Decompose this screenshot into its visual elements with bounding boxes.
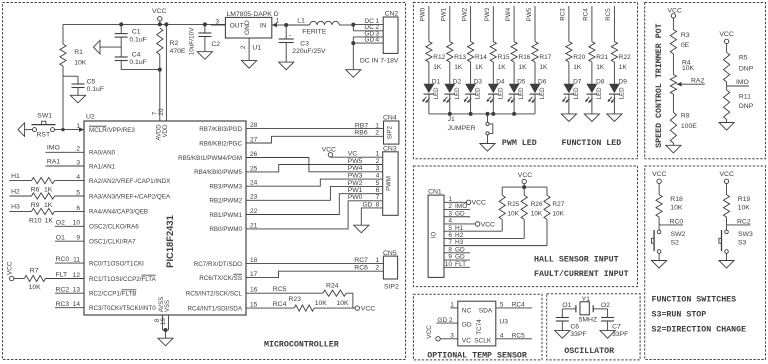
svg-text:PW3: PW3 bbox=[484, 7, 491, 21]
CN1 pin 10 FLT bbox=[444, 261, 470, 268]
CN1 pin 8 GD bbox=[444, 246, 470, 253]
section box MICROCONTROLLER bbox=[3, 3, 406, 360]
U2 pin 16 RC5/INT2/SCK/SCL bbox=[186, 287, 258, 298]
section box SPEED CONTROL TRIMMER POT bbox=[645, 3, 766, 159]
label FUNCTION LED bbox=[562, 139, 622, 148]
svg-text:RC7: RC7 bbox=[354, 257, 368, 264]
svg-text:OPTIONAL TEMP SENSOR: OPTIONAL TEMP SENSOR bbox=[427, 352, 527, 361]
svg-text:3: 3 bbox=[376, 165, 380, 172]
U2 pin 8 AVSS lead bbox=[154, 297, 165, 330]
net FLT label bbox=[56, 272, 68, 279]
label S2=DIRECTION CHANGE bbox=[652, 326, 747, 335]
svg-text:GD 2: GD 2 bbox=[437, 317, 453, 324]
label SPEED CONTROL TRIMMER POT bbox=[655, 23, 664, 147]
svg-text:1K: 1K bbox=[45, 217, 54, 224]
ground flag at C1/C4 midpoint bbox=[93, 40, 121, 54]
CN2 pin 4 GD bbox=[353, 37, 383, 44]
wire RST to U2 pin 1 bbox=[55, 129, 85, 131]
resistor R2 470E bbox=[157, 28, 186, 70]
svg-text:4: 4 bbox=[500, 333, 504, 340]
svg-text:1K: 1K bbox=[498, 64, 507, 71]
svg-text:VCC: VCC bbox=[152, 8, 166, 15]
net RC2 to pin 13 bbox=[55, 286, 84, 293]
svg-text:RC2: RC2 bbox=[737, 218, 751, 225]
svg-text:1K: 1K bbox=[475, 64, 484, 71]
svg-text:H1: H1 bbox=[455, 225, 464, 232]
resistor R13 1K bbox=[447, 42, 467, 72]
svg-text:PW4: PW4 bbox=[505, 7, 512, 21]
resistor R1 10K bbox=[60, 24, 87, 129]
svg-text:FUNCTION LED: FUNCTION LED bbox=[562, 139, 622, 148]
resistor R15 1K bbox=[490, 42, 510, 72]
junction C2 top bbox=[203, 22, 207, 26]
svg-text:5: 5 bbox=[376, 180, 380, 187]
svg-text:R14: R14 bbox=[475, 54, 487, 61]
R4 wiper RA2 bbox=[677, 77, 705, 86]
svg-text:10K: 10K bbox=[531, 211, 543, 218]
U3 pin 1 NC bbox=[450, 302, 458, 309]
svg-text:GD: GD bbox=[455, 246, 465, 253]
svg-text:JUMPER: JUMPER bbox=[448, 125, 476, 132]
svg-text:10K: 10K bbox=[552, 211, 564, 218]
svg-text:H1: H1 bbox=[11, 173, 20, 180]
svg-text:10K: 10K bbox=[74, 60, 87, 67]
U2 pin 14 RC3/T0CKI/T5CKI/INT0 bbox=[73, 301, 157, 312]
net RC2 stub bbox=[727, 217, 751, 230]
svg-text:14: 14 bbox=[73, 301, 81, 308]
svg-text:VCC: VCC bbox=[720, 171, 734, 178]
svg-text:R17: R17 bbox=[539, 54, 551, 61]
node VCC at CN3 bbox=[322, 146, 336, 157]
svg-text:15: 15 bbox=[250, 302, 258, 309]
svg-text:RC2: RC2 bbox=[56, 286, 70, 293]
label HALL SENSOR INPUT bbox=[534, 256, 619, 265]
svg-text:3: 3 bbox=[215, 18, 219, 25]
svg-text:RA3/AN3/VREF+/CAP2/QEA: RA3/AN3/VREF+/CAP2/QEA bbox=[89, 193, 171, 200]
svg-text:20: 20 bbox=[158, 108, 165, 115]
net H3 wire bbox=[9, 204, 31, 212]
svg-text:RC0: RC0 bbox=[670, 218, 684, 225]
svg-text:2: 2 bbox=[375, 264, 379, 271]
svg-text:PW4: PW4 bbox=[348, 165, 363, 172]
label OSCILLATOR bbox=[564, 347, 614, 356]
svg-text:LED: LED bbox=[618, 87, 625, 100]
svg-text:LM7805-DAPK D: LM7805-DAPK D bbox=[227, 11, 279, 18]
capacitor C6 33PF bbox=[556, 318, 587, 338]
label DC IN 7-18V bbox=[360, 58, 399, 65]
U2 pin 23 RB2/PWM2 bbox=[209, 194, 257, 205]
ground under C2 bbox=[197, 52, 212, 60]
svg-text:IO: IO bbox=[431, 232, 437, 239]
svg-text:5: 5 bbox=[76, 189, 80, 196]
svg-text:8: 8 bbox=[448, 246, 452, 253]
svg-text:10K: 10K bbox=[670, 205, 683, 212]
svg-text:C4: C4 bbox=[132, 51, 141, 58]
svg-text:RB2/PWM2: RB2/PWM2 bbox=[209, 198, 242, 205]
U2 pin 21 RB0/PWM0 bbox=[209, 222, 257, 233]
ground flag left of SW1 bbox=[18, 123, 33, 137]
ground under C7 bbox=[600, 331, 615, 339]
CN1 pin 9 GD bbox=[444, 254, 470, 261]
svg-text:10uF/10V: 10uF/10V bbox=[188, 27, 195, 55]
CN1 pin 2 IMO bbox=[444, 203, 470, 210]
LED D3 bbox=[464, 62, 482, 114]
resistor R12 1K bbox=[426, 42, 446, 72]
svg-text:26: 26 bbox=[250, 151, 258, 158]
svg-text:220uF/25V: 220uF/25V bbox=[292, 48, 326, 55]
net H1 wire bbox=[9, 173, 31, 181]
svg-text:RA0/AN0: RA0/AN0 bbox=[89, 150, 116, 157]
U2 pin 11 RC0/T1OSO/T1CKI bbox=[73, 257, 144, 268]
svg-text:VDD: VDD bbox=[163, 124, 169, 137]
connector CN4 SIP2 bbox=[383, 114, 399, 144]
svg-text:GD: GD bbox=[363, 201, 373, 208]
svg-text:C3: C3 bbox=[300, 40, 309, 47]
svg-text:R15: R15 bbox=[498, 54, 510, 61]
U2 pin 10 OSC2/CLKO/RA6 bbox=[73, 220, 140, 231]
ground under C6 bbox=[555, 331, 570, 339]
svg-text:RC5: RC5 bbox=[512, 333, 525, 340]
svg-text:R8: R8 bbox=[681, 112, 690, 119]
connector CN1 IO bbox=[428, 188, 444, 277]
U1 pin 3 OUT wire bbox=[211, 18, 225, 25]
resistor R24 10K bbox=[246, 283, 353, 309]
svg-text:R12: R12 bbox=[433, 54, 445, 61]
svg-text:SCLK: SCLK bbox=[474, 337, 492, 344]
svg-text:21: 21 bbox=[250, 222, 258, 229]
svg-text:HALL SENSOR INPUT: HALL SENSOR INPUT bbox=[534, 256, 619, 265]
CN1 pin 5 H1 bbox=[444, 225, 502, 232]
junction LED bus bbox=[491, 112, 495, 116]
wire RC7 pin18 to CN5-1 bbox=[246, 257, 383, 264]
svg-text:OSCILLATOR: OSCILLATOR bbox=[564, 347, 614, 356]
U2 pin 27 RB6/KBI2/PGC bbox=[199, 136, 257, 147]
U2 pin 26 RB5/KBI1/PWM4/PGM bbox=[178, 151, 258, 162]
svg-text:24: 24 bbox=[250, 180, 258, 187]
svg-text:8: 8 bbox=[376, 201, 380, 208]
capacitor C2 10uF/10V bbox=[188, 24, 220, 55]
svg-text:PW0: PW0 bbox=[348, 194, 363, 201]
svg-text:PWM: PWM bbox=[387, 176, 393, 191]
capacitor C7 33PF bbox=[601, 318, 628, 338]
svg-text:2: 2 bbox=[76, 146, 80, 153]
svg-text:RA4/AN4/CAP3/QEB: RA4/AN4/CAP3/QEB bbox=[89, 209, 148, 216]
svg-text:1: 1 bbox=[448, 196, 452, 203]
svg-text:O1: O1 bbox=[56, 234, 65, 241]
ground under D9 bbox=[607, 114, 622, 122]
svg-text:SW3: SW3 bbox=[738, 231, 753, 238]
U2 pin 1 input arrow bbox=[79, 127, 84, 132]
svg-text:R9: R9 bbox=[31, 202, 40, 209]
svg-text:C1: C1 bbox=[132, 29, 141, 36]
svg-text:25: 25 bbox=[250, 165, 258, 172]
capacitor C5 0.1uF bbox=[63, 76, 104, 95]
svg-text:R21: R21 bbox=[596, 54, 608, 61]
connector CN3 PWM bbox=[383, 145, 398, 215]
svg-text:R27: R27 bbox=[552, 201, 564, 208]
wire VC to CN3-1 bbox=[330, 151, 382, 158]
resistor R3 0E bbox=[670, 30, 690, 54]
U3 pin 2 GD bbox=[436, 317, 457, 324]
svg-text:17: 17 bbox=[250, 271, 258, 278]
net RC0 to pin 11 bbox=[55, 256, 84, 263]
net PW3 label bbox=[484, 6, 493, 42]
resistor R26 10K bbox=[521, 187, 543, 238]
ground under U2 bbox=[158, 338, 173, 346]
svg-text:RC5/INT2/SCK/SCL: RC5/INT2/SCK/SCL bbox=[186, 291, 243, 298]
svg-text:RC6: RC6 bbox=[354, 264, 368, 271]
svg-text:470E: 470E bbox=[170, 48, 186, 55]
U2 pin 22 RB1/PWM1 bbox=[209, 208, 257, 219]
svg-text:RC4: RC4 bbox=[583, 8, 590, 21]
svg-text:LED: LED bbox=[596, 87, 603, 100]
resistor R11 DNP bbox=[723, 90, 753, 119]
svg-text:0.1uF: 0.1uF bbox=[129, 59, 146, 66]
junction R2 top bbox=[158, 22, 162, 26]
svg-text:CN3: CN3 bbox=[383, 145, 397, 152]
resistor R27 10K bbox=[544, 187, 565, 246]
ground under CN3 bbox=[354, 225, 369, 233]
svg-text:6: 6 bbox=[76, 205, 80, 212]
ground under D8 bbox=[584, 114, 599, 122]
U2 pin 17 RC6/TX/CK/SS bbox=[199, 271, 257, 282]
ground under U1 bbox=[242, 61, 257, 69]
svg-text:23: 23 bbox=[250, 194, 258, 201]
svg-text:LED: LED bbox=[497, 87, 504, 100]
svg-text:RC1/T1OSI/CCP2/FLTA: RC1/T1OSI/CCP2/FLTA bbox=[89, 276, 157, 283]
resistor R21 1K bbox=[589, 42, 609, 72]
CN1 pin 6 H2 bbox=[444, 232, 524, 239]
svg-text:RC4: RC4 bbox=[512, 302, 525, 309]
svg-text:SW1: SW1 bbox=[37, 113, 52, 120]
net O2 wire bbox=[593, 302, 610, 318]
svg-text:1K: 1K bbox=[596, 64, 605, 71]
svg-text:10K: 10K bbox=[315, 300, 328, 307]
svg-text:RC2/CCP1/FLTB: RC2/CCP1/FLTB bbox=[89, 291, 136, 298]
svg-text:VCC: VCC bbox=[518, 172, 532, 179]
svg-text:2: 2 bbox=[375, 129, 379, 136]
svg-text:RC4: RC4 bbox=[273, 301, 287, 308]
svg-text:RB1/PWM1: RB1/PWM1 bbox=[209, 212, 242, 219]
svg-text:H3: H3 bbox=[11, 204, 20, 211]
net RC3 to pin 14 bbox=[55, 301, 84, 308]
svg-text:CN2: CN2 bbox=[385, 10, 399, 17]
svg-text:TC74: TC74 bbox=[476, 319, 483, 335]
svg-text:GND: GND bbox=[244, 20, 251, 35]
junction C1 top bbox=[119, 22, 123, 26]
svg-text:DNP: DNP bbox=[739, 103, 754, 110]
U1 pin 2 GND lead bbox=[240, 38, 261, 61]
U2 pin 4 RA2/AN2/VREF-/CAP1/INDX bbox=[76, 174, 171, 185]
ground under R8 bbox=[666, 145, 681, 153]
node VCC at R7 bbox=[7, 261, 25, 281]
svg-text:RC5: RC5 bbox=[273, 286, 287, 293]
node VCC at R23/R24 bbox=[355, 306, 375, 313]
net RC5 label pin16 bbox=[273, 286, 287, 293]
svg-text:J1: J1 bbox=[448, 116, 455, 123]
svg-text:R6: R6 bbox=[31, 187, 40, 194]
svg-text:D7: D7 bbox=[573, 78, 582, 85]
svg-text:VC: VC bbox=[348, 151, 358, 158]
svg-text:1: 1 bbox=[375, 122, 379, 129]
svg-text:VCC: VCC bbox=[668, 7, 682, 14]
svg-text:LED: LED bbox=[454, 87, 461, 100]
svg-text:R7: R7 bbox=[30, 268, 39, 275]
svg-text:RST: RST bbox=[37, 132, 51, 139]
connector CN2 bbox=[383, 10, 398, 53]
ground under C5 bbox=[70, 95, 85, 103]
svg-text:IMO: IMO bbox=[736, 79, 749, 86]
net O2 to pin 10 bbox=[55, 220, 84, 227]
svg-text:1K: 1K bbox=[433, 64, 442, 71]
svg-text:GD: GD bbox=[462, 321, 472, 328]
U2 pin 20 VDD label bbox=[158, 108, 169, 137]
svg-text:1K: 1K bbox=[44, 187, 53, 194]
svg-text:R26: R26 bbox=[531, 201, 543, 208]
svg-text:VCC: VCC bbox=[472, 200, 486, 207]
wire SW2 to ground bbox=[658, 253, 660, 260]
resistor R8 100E bbox=[670, 112, 697, 143]
wire RC6 pin17 to CN5-2 bbox=[246, 264, 383, 277]
svg-text:1: 1 bbox=[375, 257, 379, 264]
svg-text:FUNCTION SWITCHES: FUNCTION SWITCHES bbox=[652, 296, 737, 305]
svg-text:19: 19 bbox=[160, 318, 167, 325]
svg-text:C7: C7 bbox=[612, 323, 621, 330]
svg-text:SIP2: SIP2 bbox=[388, 125, 394, 139]
connector CN5 SIP2 bbox=[383, 250, 399, 290]
svg-text:PW5: PW5 bbox=[526, 7, 533, 21]
U2 pin 15 RC4/INT1/SDI/SDA bbox=[187, 302, 257, 313]
LED D6 bbox=[528, 62, 546, 114]
U2 pin 9 OSC1/CLKI/RA7 bbox=[76, 235, 136, 246]
label S3=RUN STOP bbox=[652, 311, 707, 320]
svg-text:22: 22 bbox=[250, 208, 258, 215]
svg-text:1K: 1K bbox=[573, 64, 582, 71]
svg-text:O1: O1 bbox=[562, 302, 571, 309]
svg-text:VCC: VCC bbox=[7, 261, 14, 275]
wire PW5 pin25 to CN3-2 bbox=[246, 158, 383, 172]
svg-text:10K: 10K bbox=[29, 284, 42, 291]
section box PWM/FUNCTION LED bbox=[413, 3, 637, 159]
svg-text:IMO: IMO bbox=[47, 145, 60, 152]
wire PW1 pin22 to CN3-6 bbox=[246, 187, 383, 214]
svg-text:4: 4 bbox=[448, 218, 452, 225]
wire hall pullup rail bbox=[502, 186, 547, 188]
svg-text:13: 13 bbox=[73, 287, 81, 294]
net O1 to pin 9 bbox=[55, 234, 84, 241]
svg-text:H3: H3 bbox=[455, 239, 464, 246]
junction C3 top bbox=[284, 23, 288, 27]
resistor R25 10K bbox=[499, 187, 520, 231]
ground under SW2 bbox=[652, 261, 667, 269]
label PWM LED bbox=[502, 139, 537, 148]
svg-text:RB5/KBI1/PWM4/PGM: RB5/KBI1/PWM4/PGM bbox=[178, 155, 242, 162]
CN2 pin 3 GD bbox=[353, 30, 383, 37]
svg-text:U2: U2 bbox=[86, 114, 95, 121]
jumper J1 bbox=[448, 114, 493, 144]
wire rail to U1 OUT bbox=[210, 23, 212, 26]
junction R1 to RST bbox=[61, 128, 64, 131]
svg-text:6: 6 bbox=[448, 232, 452, 239]
resistor R23 10K bbox=[246, 296, 355, 311]
junction pullup rail bbox=[522, 185, 526, 189]
svg-text:LED: LED bbox=[539, 87, 546, 100]
svg-text:RC3: RC3 bbox=[56, 301, 70, 308]
net PW0 label bbox=[420, 6, 429, 42]
svg-text:S2: S2 bbox=[671, 239, 680, 246]
svg-text:VSS: VSS bbox=[165, 300, 171, 312]
svg-text:R10: R10 bbox=[29, 217, 42, 224]
ground under J1 bbox=[480, 144, 495, 152]
svg-text:16: 16 bbox=[250, 287, 258, 294]
svg-text:7: 7 bbox=[448, 239, 452, 246]
wire LED cathode bus bbox=[429, 113, 535, 115]
svg-text:1: 1 bbox=[450, 302, 454, 309]
U1 pin 1 IN wire with input arrow bbox=[272, 18, 286, 28]
svg-text:33PF: 33PF bbox=[612, 331, 628, 338]
net IMO to pin 2 bbox=[46, 145, 85, 153]
label FAULT/CURRENT INPUT bbox=[534, 269, 629, 279]
net IMO stub bbox=[727, 79, 749, 90]
node VCC at R18 bbox=[652, 171, 666, 195]
U2 pin 28 RB7/KBI3/PGD bbox=[199, 122, 257, 133]
svg-text:H2: H2 bbox=[11, 188, 20, 195]
svg-text:0.1uF: 0.1uF bbox=[129, 37, 146, 44]
svg-text:3: 3 bbox=[448, 210, 452, 217]
ground under CN2 bbox=[346, 70, 361, 78]
svg-text:R22: R22 bbox=[619, 54, 631, 61]
svg-text:PW0: PW0 bbox=[420, 7, 427, 21]
U2 pin 1 MCLR/VPP/RE3 bbox=[76, 123, 135, 134]
wire PW2 pin23 to CN3-5 bbox=[246, 180, 383, 201]
U2 pin 12 RC1/T1OSI/CCP2/FLTA bbox=[73, 272, 157, 283]
ground under R11 bbox=[719, 123, 734, 131]
svg-text:CN4: CN4 bbox=[383, 114, 397, 121]
svg-text:FLT: FLT bbox=[56, 272, 68, 279]
svg-text:1K: 1K bbox=[519, 64, 528, 71]
microcontroller U2 PIC18F2431 body bbox=[84, 114, 246, 315]
svg-text:0E: 0E bbox=[681, 42, 690, 49]
resistor R18 10K bbox=[656, 195, 683, 217]
svg-text:RB0/PWM0: RB0/PWM0 bbox=[209, 226, 242, 233]
svg-text:RC6/TX/CK/SS: RC6/TX/CK/SS bbox=[199, 275, 242, 282]
U2 pin 3 RA1/AN1 bbox=[76, 159, 115, 170]
temp sensor U3 TC74 body bbox=[458, 301, 509, 346]
svg-text:SDA: SDA bbox=[479, 308, 493, 315]
LED D1 bbox=[422, 62, 440, 114]
resistor R10 1K bbox=[29, 208, 84, 224]
svg-text:RC0/T1OSO/T1CKI: RC0/T1OSO/T1CKI bbox=[89, 260, 144, 267]
svg-text:R24: R24 bbox=[326, 283, 339, 290]
svg-text:C2: C2 bbox=[211, 41, 220, 48]
net RC3 label bbox=[560, 6, 569, 42]
svg-text:2: 2 bbox=[376, 158, 380, 165]
svg-text:PW5: PW5 bbox=[348, 158, 363, 165]
svg-text:R20: R20 bbox=[573, 54, 585, 61]
section box OSCILLATOR bbox=[547, 294, 640, 360]
wire R8 to ground bbox=[672, 143, 674, 145]
svg-text:S3: S3 bbox=[738, 239, 747, 246]
net O1 wire bbox=[562, 302, 576, 318]
voltage regulator U1 LM7805-DAPK D bbox=[225, 11, 278, 38]
resistor R16 1K bbox=[511, 42, 531, 72]
svg-text:VCC: VCC bbox=[481, 221, 495, 228]
wire VCC rail bbox=[63, 23, 225, 25]
svg-text:LED: LED bbox=[518, 87, 525, 100]
svg-text:4: 4 bbox=[375, 37, 379, 44]
wire R11 to ground bbox=[726, 120, 728, 123]
svg-text:VCC: VCC bbox=[361, 306, 375, 313]
